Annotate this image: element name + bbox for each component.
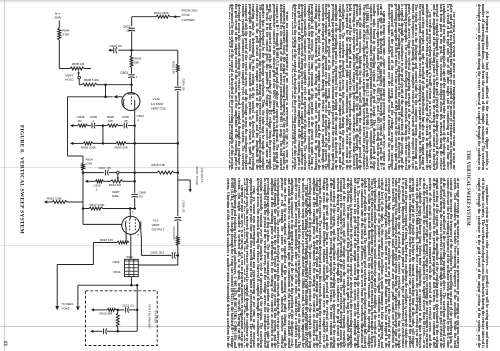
dashed box vert blanking system xyxy=(86,291,158,346)
wire cathode tube2 xyxy=(125,230,127,243)
junction row1 xyxy=(102,124,105,127)
intro paragraph column 2 xyxy=(476,178,489,348)
capacitor C601 .1 xyxy=(128,74,134,76)
capacitor C608 .05 in grid line xyxy=(132,193,138,195)
svg-text:R611 100K: R611 100K xyxy=(154,11,169,15)
resistor R615 68K xyxy=(107,308,116,311)
svg-text:SYSTEM: SYSTEM xyxy=(153,310,157,323)
pot wiper terminal circle xyxy=(117,171,120,174)
svg-text:C640 .001: C640 .001 xyxy=(150,250,164,254)
svg-text:FROM 2ND: FROM 2ND xyxy=(182,9,199,13)
svg-text:VERT: VERT xyxy=(152,223,160,227)
wire main bus upper xyxy=(177,50,179,64)
resistor R616 6.8K to bus xyxy=(157,171,174,174)
scan crease faint line horizontal xyxy=(0,326,500,327)
junction size row grid bus xyxy=(133,171,136,174)
tube1 plate bar and lead xyxy=(134,100,136,106)
wire boot strap stub xyxy=(178,179,190,181)
svg-text:R620 82K: R620 82K xyxy=(172,227,176,240)
junction grid/node-A row xyxy=(130,83,133,86)
svg-text:1/2 6SN7: 1/2 6SN7 xyxy=(151,102,164,106)
tube2 plate bar xyxy=(140,222,142,232)
wire node A to grid chain xyxy=(106,84,132,86)
svg-text:C606 .05: C606 .05 xyxy=(181,79,185,91)
svg-text:.1: .1 xyxy=(135,75,138,79)
svg-text:R609 10K: R609 10K xyxy=(115,146,128,150)
svg-text:280V: 280V xyxy=(54,16,62,20)
wiper arrow onto R612 xyxy=(117,174,119,177)
svg-text:R605 1M: R605 1M xyxy=(72,62,85,66)
svg-text:R612 4M: R612 4M xyxy=(109,183,122,187)
svg-text:R602 15K: R602 15K xyxy=(172,61,176,74)
scan streak faint line y167 xyxy=(0,167,236,168)
rotated body text block xyxy=(227,4,493,348)
svg-text:FIGURE 8. VERTICAL SWEEP SYST: FIGURE 8. VERTICAL SWEEP SYSTEM xyxy=(19,125,25,235)
svg-text:C607 .05: C607 .05 xyxy=(99,166,112,170)
svg-text:7: 7 xyxy=(132,211,134,215)
wire R608 to node A xyxy=(97,84,106,86)
svg-text:R618 150: R618 150 xyxy=(100,238,113,242)
wire bus below C606 xyxy=(177,91,179,216)
svg-text:10K: 10K xyxy=(108,119,113,123)
svg-text:V12A: V12A xyxy=(153,97,161,101)
wire plate cap to bus xyxy=(141,254,171,256)
resistor R606 1M linearity xyxy=(78,124,88,127)
resistor R604 3.3M xyxy=(58,28,61,40)
row y=181 arrow tap xyxy=(85,180,88,183)
tube1 grid bar xyxy=(128,93,135,95)
wire row1 junction down xyxy=(102,126,104,144)
wire tube2 plate lead xyxy=(140,231,143,238)
capacitor C607 .05 xyxy=(83,172,104,174)
capacitor C602 .05 with arrow stub xyxy=(118,49,131,51)
junction row2-cathode bus xyxy=(133,142,136,145)
wire R604 to hold pot xyxy=(58,40,60,69)
wire bus mid xyxy=(177,221,179,236)
junction bus row2 xyxy=(177,142,180,145)
svg-text:HOLD: HOLD xyxy=(65,78,74,82)
svg-text:.05: .05 xyxy=(124,119,128,123)
resistor R609 10K xyxy=(116,142,126,145)
junction transformer secondary xyxy=(130,277,132,286)
blanking row1 arrow xyxy=(91,308,94,311)
wire R611 to C603 xyxy=(132,16,156,18)
wire C608 to tube2 grid xyxy=(134,198,136,209)
junction blanking xyxy=(117,309,120,312)
svg-text:R617 470K: R617 470K xyxy=(90,203,105,207)
junction J1 xyxy=(130,49,133,52)
resistor R608 5.6M isolating xyxy=(82,83,97,86)
capacitor C600 .05 xyxy=(118,125,123,127)
arrow tap row1 xyxy=(70,124,73,127)
capacitor blanking row2 xyxy=(103,328,105,334)
svg-text:CLIPPER: CLIPPER xyxy=(182,18,196,22)
junction bus boot strap row xyxy=(177,171,180,174)
svg-text:.1: .1 xyxy=(95,188,98,192)
svg-text:R619: R619 xyxy=(114,270,121,274)
arrow into 6SN7 grid xyxy=(113,95,117,99)
wire left bus2 xyxy=(82,170,84,208)
capacitor C605 .1 xyxy=(88,125,91,127)
svg-text:C601: C601 xyxy=(120,71,128,75)
svg-text:R608 5.6M: R608 5.6M xyxy=(84,78,99,82)
resistor R600 100K xyxy=(83,142,93,145)
capacitor C612 .01 xyxy=(125,307,127,313)
wire bus to transformer xyxy=(177,246,179,266)
wire grid horizontal xyxy=(68,96,113,98)
svg-text:R610 3.3M: R610 3.3M xyxy=(47,197,62,201)
capacitor C603 .05 xyxy=(129,27,135,29)
transformer T601 vert output xyxy=(125,259,139,276)
svg-text:R615 68K: R615 68K xyxy=(100,312,113,316)
page gutter shading band (top edge) xyxy=(0,0,500,3)
arrow boot strap xyxy=(189,189,192,192)
wire C603 to junction xyxy=(131,31,133,50)
scan streak faint line y245 xyxy=(0,245,236,246)
svg-text:VERT OSC: VERT OSC xyxy=(151,106,167,110)
junction row1-cathode bus xyxy=(133,124,136,127)
wire row2 mid xyxy=(93,142,116,144)
resistor vertical in blanking box xyxy=(116,313,119,327)
resistor R610 3.3M stub xyxy=(52,201,67,204)
blanking row2 arrow xyxy=(90,330,93,333)
junction row181 grid bus xyxy=(133,180,136,183)
svg-text:.05: .05 xyxy=(139,194,143,198)
junction left bus size row xyxy=(82,171,85,174)
resistor R611 100K xyxy=(156,15,170,18)
wire wiper to R608 xyxy=(78,79,80,85)
wire row2 to bus xyxy=(126,142,178,144)
svg-text:340 VOLTS: 340 VOLTS xyxy=(200,168,204,183)
junction bus plate cap xyxy=(177,254,180,257)
wire B++ down to R604 xyxy=(58,21,60,29)
svg-text:YOKE: YOKE xyxy=(61,306,69,310)
svg-text:3.3M: 3.3M xyxy=(62,33,69,37)
wire left bus vertical xyxy=(67,97,69,157)
svg-text:.1: .1 xyxy=(137,118,140,122)
resistor R617 470K xyxy=(83,208,89,210)
svg-text:R616 6.8K: R616 6.8K xyxy=(152,163,166,167)
svg-text:.1: .1 xyxy=(92,119,95,123)
node grid tap xyxy=(104,96,107,99)
svg-text:C612 .01: C612 .01 xyxy=(122,303,134,307)
svg-text:.05: .05 xyxy=(126,28,131,32)
tube2 screen grid dashes xyxy=(134,219,136,232)
arrow to deflection yoke 1 xyxy=(55,306,59,310)
resistor R613 with C610 label xyxy=(95,180,103,183)
junction blanking row2 xyxy=(117,330,120,333)
wire tube1 plate lead down xyxy=(134,106,136,193)
wire C601 to tube grid xyxy=(131,78,133,93)
capacitor C609 .05 on bus xyxy=(174,217,181,219)
node sync input from clipper xyxy=(174,15,177,18)
svg-text:R600 100K: R600 100K xyxy=(81,146,96,150)
wire J1 to bus xyxy=(132,49,178,51)
svg-text:1200: 1200 xyxy=(86,161,93,165)
scan edge faint line left xyxy=(4,0,5,351)
resistor R602 10K xyxy=(103,125,107,127)
svg-text:5: 5 xyxy=(137,233,139,237)
resistor R614 1200 xyxy=(82,156,84,163)
resistor R620 82K on bus xyxy=(176,236,179,245)
heading THE VERTICAL SWEEP SYSTEM xyxy=(466,16,471,351)
arrow to deflection yoke 2 xyxy=(76,306,80,310)
potentiometer R612 4M vert size xyxy=(103,180,110,182)
tube V13 vert output envelope xyxy=(122,216,140,234)
wire node A down to grid wire xyxy=(105,85,107,97)
tube1 grid dashes xyxy=(131,97,133,106)
resistor R603 56K grid chain xyxy=(130,56,133,68)
svg-text:SIZE: SIZE xyxy=(112,194,119,198)
wire cathode to yoke xyxy=(92,243,94,265)
svg-text:1M: 1M xyxy=(77,119,82,123)
junction R617 grid xyxy=(133,207,136,210)
svg-text:TO DEFL: TO DEFL xyxy=(61,302,74,306)
svg-text:SYNC: SYNC xyxy=(182,13,191,17)
tube1 cathode xyxy=(122,99,125,106)
wire grid bus to R616 xyxy=(135,172,157,174)
tube2 control grid dashes xyxy=(129,219,131,232)
svg-text:OUTPUT: OUTPUT xyxy=(152,228,165,232)
intro paragraph column 1 xyxy=(476,4,489,170)
tube2 cathode xyxy=(124,221,127,230)
wire wiper circle to grid bus xyxy=(119,172,135,174)
tube2 screen feed wire xyxy=(82,209,84,225)
capacitor C606 .05 on bus xyxy=(174,86,181,88)
svg-text:C609: C609 xyxy=(113,260,120,264)
svg-text:VERT BLANKING: VERT BLANKING xyxy=(147,304,151,329)
svg-text:C609 .05: C609 .05 xyxy=(181,201,185,213)
junction row2 xyxy=(102,142,105,145)
tube2 grid pin xyxy=(129,209,131,220)
tube V12A 1/2 6SN7 vert osc envelope xyxy=(122,93,140,111)
wire secondary to yoke xyxy=(78,284,137,286)
resistor R602 15K on bus xyxy=(176,64,179,72)
svg-text:5000: 5000 xyxy=(127,255,134,259)
svg-text:C602 .05: C602 .05 xyxy=(110,44,123,48)
arrow tap row2 xyxy=(70,142,73,145)
node A grid junction xyxy=(104,83,107,86)
wire bus below R602 xyxy=(177,72,179,86)
wire tube2 bottom lead xyxy=(130,234,132,259)
svg-text:13: 13 xyxy=(2,341,8,347)
resistor R618 150 xyxy=(117,241,129,244)
svg-text:BOOT STRAP: BOOT STRAP xyxy=(195,167,199,186)
svg-text:56K: 56K xyxy=(134,60,139,64)
wire into blanking box xyxy=(136,285,138,291)
potentiometer R605 1M vert hold xyxy=(70,67,84,70)
junction blanking right xyxy=(136,309,139,312)
svg-text:V13: V13 xyxy=(153,218,159,222)
